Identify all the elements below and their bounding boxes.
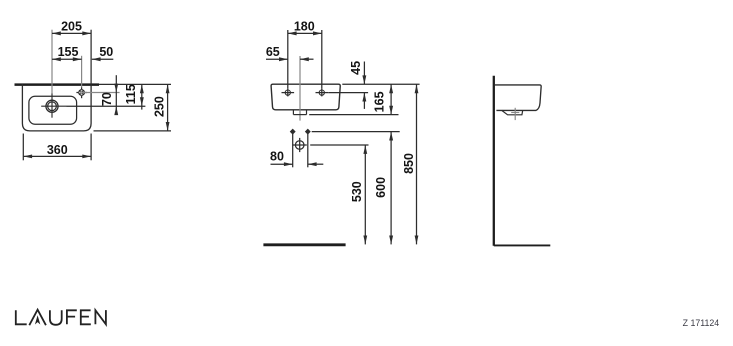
svg-text:50: 50 — [99, 45, 113, 59]
svg-text:180: 180 — [294, 19, 315, 33]
svg-text:600: 600 — [374, 177, 388, 198]
svg-text:205: 205 — [61, 19, 82, 33]
svg-text:250: 250 — [152, 96, 166, 117]
svg-text:Z 171124: Z 171124 — [683, 318, 720, 328]
svg-text:65: 65 — [266, 45, 280, 59]
svg-text:530: 530 — [350, 181, 364, 202]
svg-text:80: 80 — [270, 150, 284, 164]
svg-text:360: 360 — [47, 143, 68, 157]
svg-text:70: 70 — [100, 92, 114, 106]
svg-text:115: 115 — [124, 84, 138, 104]
svg-text:850: 850 — [402, 153, 416, 174]
svg-text:155: 155 — [58, 45, 79, 59]
svg-text:45: 45 — [349, 61, 363, 75]
svg-text:165: 165 — [372, 91, 386, 112]
